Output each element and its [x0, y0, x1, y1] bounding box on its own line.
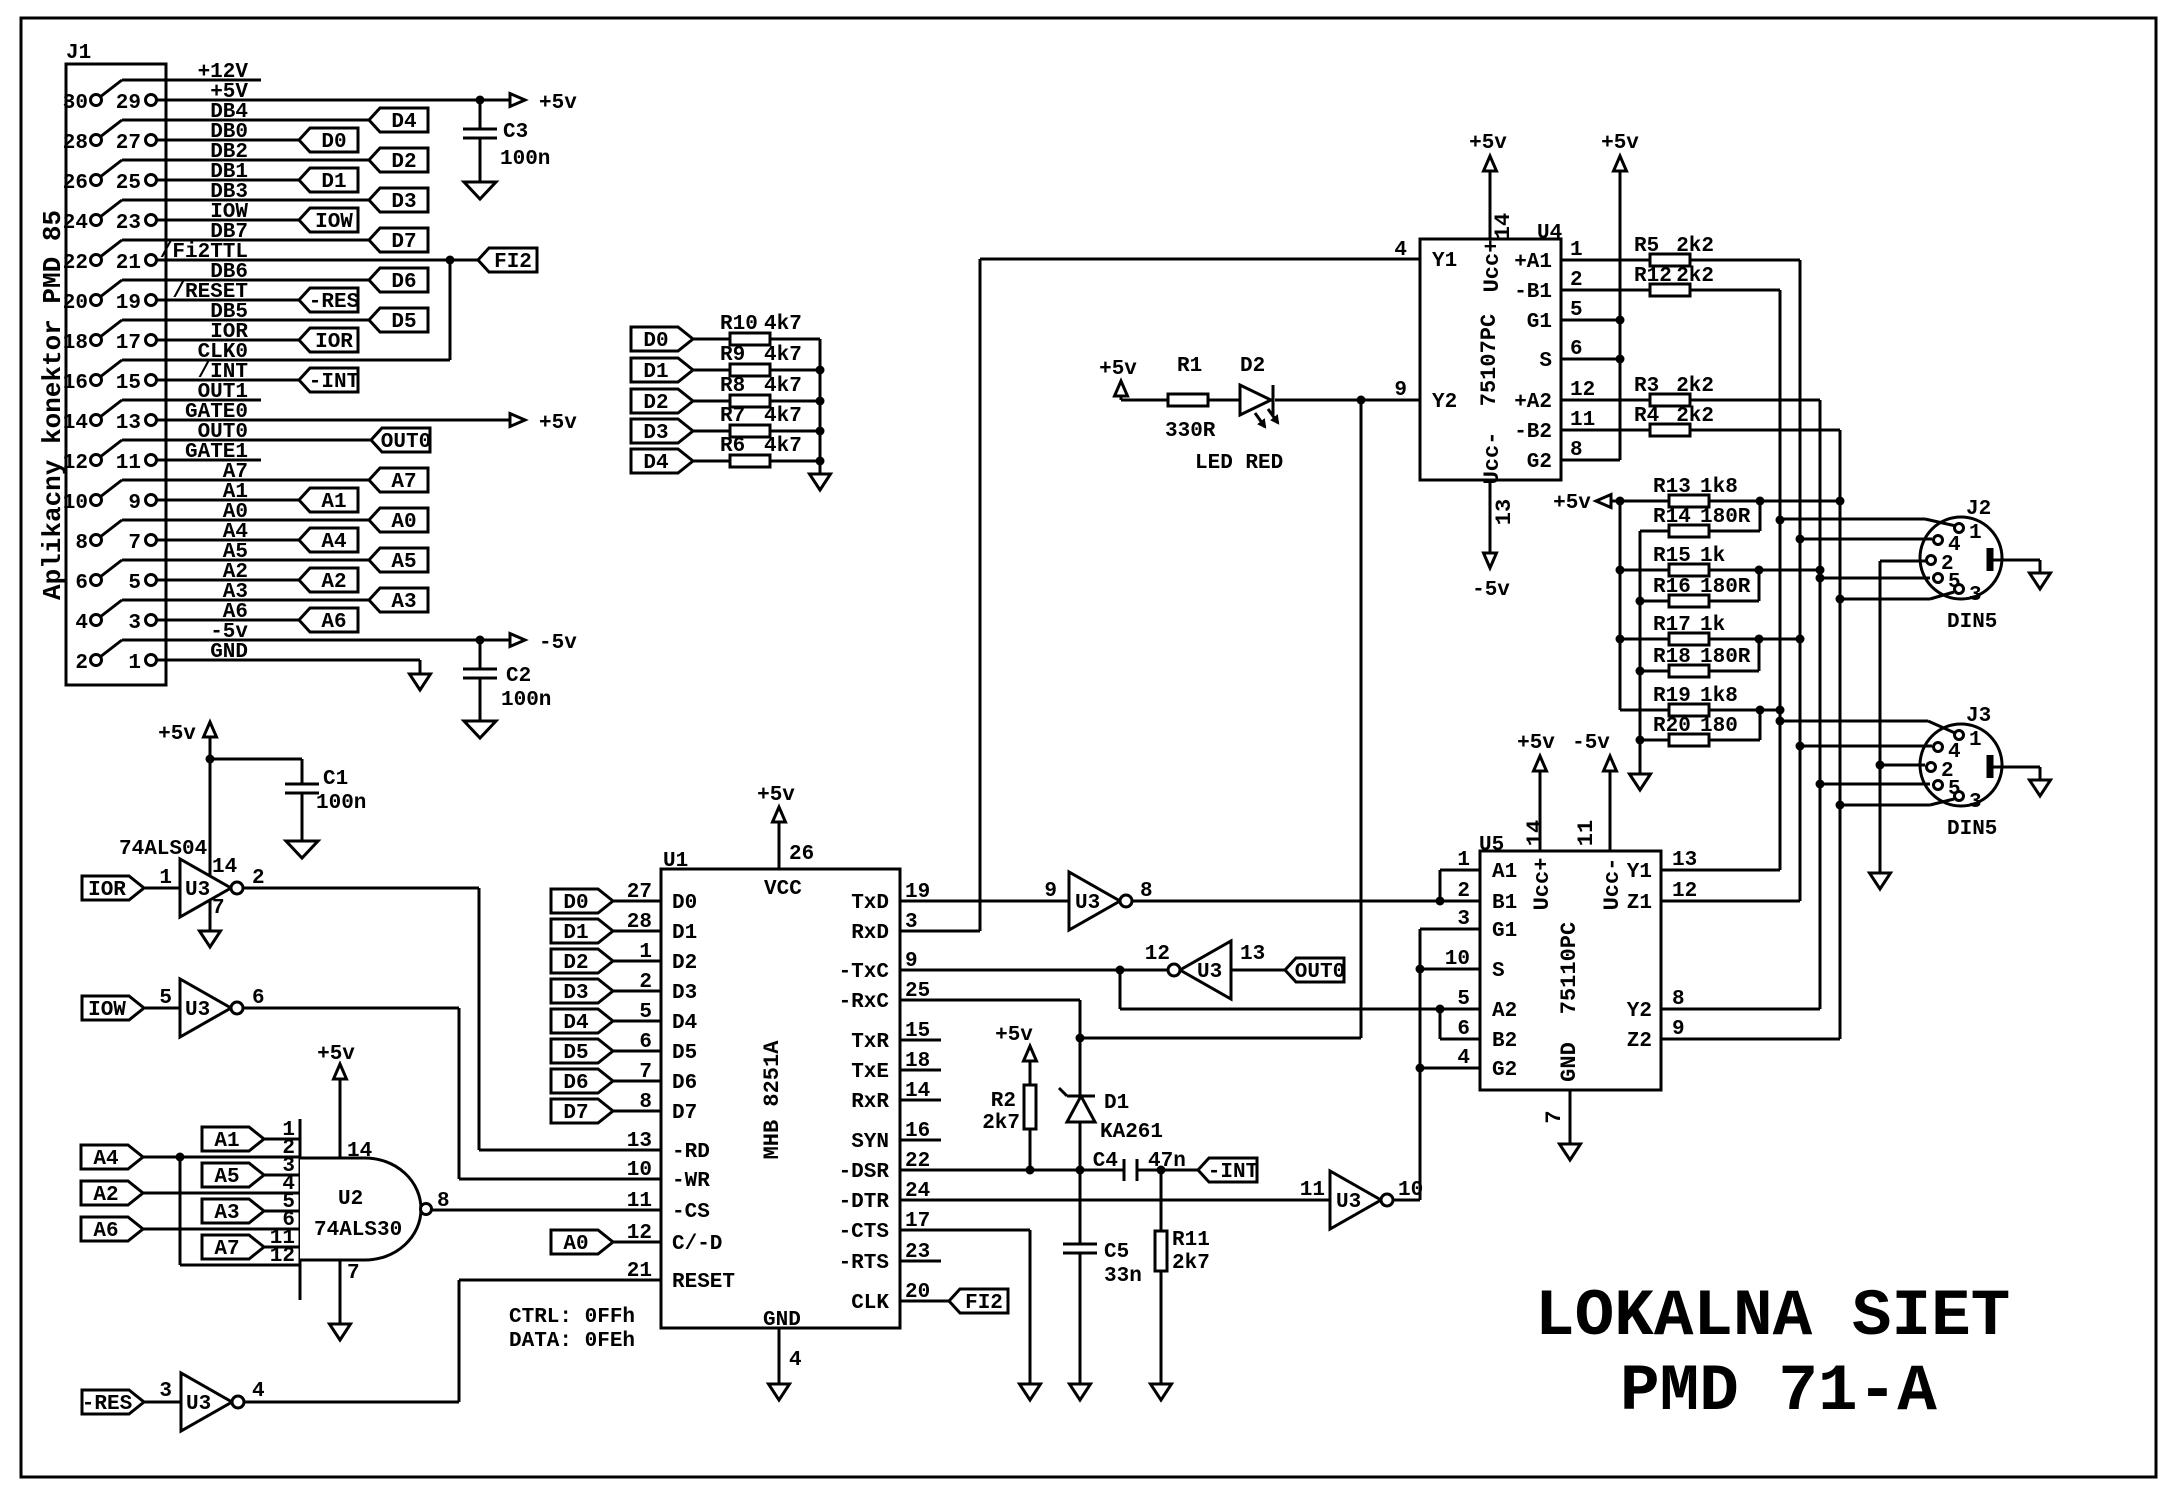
svg-text:-RES: -RES	[82, 1393, 132, 1416]
svg-text:R4: R4	[1634, 405, 1659, 428]
svg-text:U2: U2	[338, 1188, 363, 1211]
svg-text:180R: 180R	[1700, 646, 1751, 669]
svg-text:D6: D6	[672, 1072, 697, 1095]
svg-text:14: 14	[1523, 820, 1548, 846]
svg-text:R14: R14	[1653, 506, 1691, 529]
svg-text:-RTS: -RTS	[839, 1252, 889, 1275]
svg-text:A5: A5	[391, 551, 416, 574]
svg-text:5: 5	[159, 987, 172, 1010]
svg-text:D1: D1	[1104, 1092, 1129, 1115]
svg-text:OUT0: OUT0	[381, 431, 431, 454]
svg-text:D6: D6	[391, 271, 416, 294]
svg-text:R7: R7	[720, 405, 745, 428]
svg-text:D7: D7	[391, 231, 416, 254]
svg-text:D3: D3	[672, 982, 697, 1005]
svg-text:J2: J2	[1966, 498, 1991, 521]
svg-text:A0: A0	[563, 1233, 588, 1256]
svg-text:21: 21	[627, 1260, 652, 1283]
svg-text:-TxC: -TxC	[839, 961, 890, 984]
svg-text:J1: J1	[66, 42, 91, 65]
svg-text:GND: GND	[763, 1309, 801, 1332]
svg-text:D0: D0	[563, 892, 588, 915]
svg-text:1: 1	[1969, 522, 1982, 545]
svg-text:D2: D2	[391, 151, 416, 174]
svg-text:D5: D5	[391, 311, 416, 334]
svg-text:Y2: Y2	[1432, 391, 1457, 414]
svg-text:Ucc-: Ucc-	[1480, 432, 1505, 485]
svg-text:26: 26	[789, 843, 814, 866]
svg-text:12: 12	[63, 452, 88, 475]
svg-text:2k2: 2k2	[1676, 405, 1714, 428]
svg-text:Ucc-: Ucc-	[1600, 858, 1625, 911]
svg-text:A7: A7	[214, 1238, 239, 1261]
svg-text:27: 27	[116, 132, 141, 155]
svg-text:180: 180	[1700, 715, 1738, 738]
svg-text:5: 5	[1457, 988, 1470, 1011]
svg-text:4: 4	[252, 1380, 265, 1403]
svg-text:D6: D6	[563, 1072, 588, 1095]
svg-text:17: 17	[116, 332, 141, 355]
svg-text:RESET: RESET	[672, 1271, 735, 1294]
svg-text:180R: 180R	[1700, 506, 1751, 529]
svg-text:18: 18	[63, 332, 88, 355]
svg-text:2k7: 2k7	[982, 1112, 1020, 1135]
svg-text:-INT: -INT	[1208, 1161, 1258, 1184]
svg-text:DIN5: DIN5	[1947, 818, 1997, 841]
svg-text:U3: U3	[1197, 961, 1222, 984]
svg-text:14: 14	[347, 1140, 372, 1163]
svg-text:33n: 33n	[1104, 1265, 1142, 1288]
svg-text:R5: R5	[1634, 235, 1659, 258]
svg-text:D3: D3	[643, 422, 668, 445]
svg-text:74ALS04: 74ALS04	[119, 838, 207, 861]
svg-text:12: 12	[1145, 943, 1170, 966]
svg-text:1: 1	[159, 867, 172, 890]
svg-text:5: 5	[128, 572, 141, 595]
svg-text:Ucc+: Ucc+	[1480, 240, 1505, 293]
svg-text:A4: A4	[321, 531, 346, 554]
svg-text:15: 15	[116, 372, 141, 395]
svg-text:2k7: 2k7	[1172, 1252, 1210, 1275]
svg-text:4k7: 4k7	[764, 375, 802, 398]
svg-text:A3: A3	[214, 1202, 239, 1225]
svg-text:RxR: RxR	[851, 1091, 889, 1114]
svg-text:R15: R15	[1653, 545, 1691, 568]
svg-text:11: 11	[1300, 1179, 1325, 1202]
svg-text:A5: A5	[214, 1166, 239, 1189]
svg-text:8: 8	[75, 532, 88, 555]
svg-text:A6: A6	[321, 611, 346, 634]
svg-text:LED RED: LED RED	[1195, 452, 1283, 475]
svg-text:9: 9	[1044, 880, 1057, 903]
svg-text:-5v: -5v	[1472, 579, 1510, 602]
svg-text:A1: A1	[321, 491, 346, 514]
svg-text:G1: G1	[1492, 920, 1517, 943]
svg-text:2k2: 2k2	[1676, 265, 1714, 288]
svg-text:G1: G1	[1527, 311, 1552, 334]
svg-text:10: 10	[63, 492, 88, 515]
svg-text:100n: 100n	[316, 792, 366, 815]
svg-text:2: 2	[639, 971, 652, 994]
svg-text:U3: U3	[1075, 892, 1100, 915]
svg-text:IOW: IOW	[315, 211, 353, 234]
svg-text:D2: D2	[1240, 355, 1265, 378]
svg-text:B2: B2	[1492, 1030, 1517, 1053]
svg-text:22: 22	[63, 252, 88, 275]
svg-text:4k7: 4k7	[764, 405, 802, 428]
svg-text:R3: R3	[1634, 375, 1659, 398]
svg-text:9: 9	[1394, 379, 1407, 402]
svg-text:3: 3	[159, 1380, 172, 1403]
svg-text:A2: A2	[321, 571, 346, 594]
svg-text:TxD: TxD	[851, 892, 889, 915]
svg-text:R1: R1	[1177, 355, 1202, 378]
svg-text:A1: A1	[214, 1130, 239, 1153]
svg-text:1: 1	[128, 652, 141, 675]
svg-text:2k2: 2k2	[1676, 235, 1714, 258]
svg-text:+5v: +5v	[757, 784, 795, 807]
svg-text:A7: A7	[391, 471, 416, 494]
svg-text:S: S	[1492, 960, 1505, 983]
svg-text:G2: G2	[1527, 451, 1552, 474]
svg-text:C1: C1	[323, 768, 348, 791]
svg-text:27: 27	[627, 881, 652, 904]
svg-text:+5v: +5v	[995, 1024, 1033, 1047]
svg-text:D4: D4	[643, 452, 668, 475]
svg-text:D1: D1	[563, 922, 588, 945]
svg-text:13: 13	[1240, 943, 1265, 966]
svg-text:D1: D1	[643, 361, 668, 384]
svg-text:-RES: -RES	[309, 291, 359, 314]
svg-text:R18: R18	[1653, 646, 1691, 669]
svg-text:Z1: Z1	[1627, 892, 1652, 915]
svg-text:4: 4	[75, 612, 88, 635]
svg-text:+5v: +5v	[539, 92, 577, 115]
svg-text:-B2: -B2	[1514, 421, 1552, 444]
svg-text:D5: D5	[672, 1042, 697, 1065]
svg-text:7: 7	[128, 532, 141, 555]
svg-text:3: 3	[128, 612, 141, 635]
svg-text:LOKALNA SIET: LOKALNA SIET	[1535, 1279, 2010, 1354]
svg-text:14: 14	[212, 856, 237, 879]
svg-text:-INT: -INT	[309, 371, 359, 394]
svg-text:5: 5	[639, 1001, 652, 1024]
svg-text:28: 28	[627, 911, 652, 934]
svg-text:11: 11	[627, 1190, 652, 1213]
svg-text:IOW: IOW	[88, 999, 126, 1022]
svg-text:+5v: +5v	[1517, 732, 1555, 755]
svg-text:R19: R19	[1653, 685, 1691, 708]
svg-text:8: 8	[639, 1091, 652, 1114]
svg-text:-RD: -RD	[672, 1141, 710, 1164]
svg-text:4k7: 4k7	[764, 313, 802, 336]
svg-text:DATA: 0FEh: DATA: 0FEh	[509, 1330, 635, 1353]
svg-text:A2: A2	[93, 1184, 118, 1207]
svg-text:11: 11	[1574, 820, 1599, 846]
svg-text:75110PC: 75110PC	[1557, 922, 1582, 1014]
svg-text:D4: D4	[672, 1012, 697, 1035]
svg-text:6: 6	[75, 572, 88, 595]
svg-text:6: 6	[639, 1031, 652, 1054]
svg-text:-WR: -WR	[672, 1170, 710, 1193]
svg-text:C/-D: C/-D	[672, 1233, 722, 1256]
svg-text:TxE: TxE	[851, 1061, 889, 1084]
svg-text:16: 16	[63, 372, 88, 395]
svg-text:PMD 71-A: PMD 71-A	[1620, 1354, 1937, 1429]
svg-text:23: 23	[116, 212, 141, 235]
svg-text:1k: 1k	[1700, 614, 1725, 637]
svg-text:C4: C4	[1093, 1150, 1118, 1173]
svg-text:U4: U4	[1537, 222, 1562, 245]
svg-text:4k7: 4k7	[764, 344, 802, 367]
svg-text:R11: R11	[1172, 1229, 1210, 1252]
svg-text:D2: D2	[643, 392, 668, 415]
svg-text:180R: 180R	[1700, 576, 1751, 599]
svg-text:100n: 100n	[500, 148, 550, 171]
svg-text:R9: R9	[720, 344, 745, 367]
svg-text:100n: 100n	[501, 689, 551, 712]
svg-text:B1: B1	[1492, 892, 1517, 915]
svg-text:2k2: 2k2	[1676, 375, 1714, 398]
svg-text:2: 2	[1457, 880, 1470, 903]
svg-text:13: 13	[1492, 499, 1517, 525]
svg-text:3: 3	[1969, 584, 1982, 607]
svg-text:GND: GND	[1557, 1042, 1582, 1082]
svg-text:1k: 1k	[1700, 545, 1725, 568]
svg-text:-5v: -5v	[539, 632, 577, 655]
svg-text:D7: D7	[563, 1102, 588, 1125]
svg-text:R16: R16	[1653, 576, 1691, 599]
svg-text:D3: D3	[391, 191, 416, 214]
svg-text:CTRL: 0FFh: CTRL: 0FFh	[509, 1306, 635, 1329]
svg-text:-DTR: -DTR	[839, 1191, 890, 1214]
svg-text:4k7: 4k7	[764, 435, 802, 458]
svg-text:330R: 330R	[1165, 420, 1216, 443]
svg-text:D2: D2	[672, 952, 697, 975]
svg-text:+5v: +5v	[1469, 132, 1507, 155]
svg-text:R10: R10	[720, 313, 758, 336]
svg-text:MHB 8251A: MHB 8251A	[760, 1040, 785, 1160]
svg-text:1: 1	[639, 941, 652, 964]
svg-text:+5v: +5v	[1601, 132, 1639, 155]
svg-text:OUT0: OUT0	[1295, 961, 1345, 984]
svg-text:-CS: -CS	[672, 1201, 710, 1224]
svg-text:47n: 47n	[1148, 1150, 1186, 1173]
svg-text:SYN: SYN	[851, 1131, 889, 1154]
svg-text:74ALS30: 74ALS30	[314, 1219, 402, 1242]
svg-text:C5: C5	[1104, 1241, 1129, 1264]
svg-text:26: 26	[63, 172, 88, 195]
svg-text:R8: R8	[720, 375, 745, 398]
svg-text:D4: D4	[563, 1012, 588, 1035]
svg-text:Y1: Y1	[1627, 861, 1652, 884]
svg-text:D5: D5	[563, 1042, 588, 1065]
svg-text:DIN5: DIN5	[1947, 611, 1997, 634]
svg-text:R12: R12	[1634, 265, 1672, 288]
svg-text:24: 24	[63, 212, 88, 235]
svg-text:11: 11	[116, 452, 141, 475]
svg-text:7: 7	[212, 897, 225, 920]
svg-text:1k8: 1k8	[1700, 685, 1738, 708]
svg-text:D0: D0	[643, 330, 668, 353]
svg-text:J3: J3	[1966, 705, 1991, 728]
svg-text:D3: D3	[563, 982, 588, 1005]
svg-text:Z2: Z2	[1627, 1030, 1652, 1053]
svg-text:FI2: FI2	[494, 251, 532, 274]
svg-text:G2: G2	[1492, 1059, 1517, 1082]
svg-text:U1: U1	[663, 850, 688, 873]
svg-text:21: 21	[116, 252, 141, 275]
svg-text:D0: D0	[672, 892, 697, 915]
svg-text:+5v: +5v	[539, 412, 577, 435]
svg-text:10: 10	[627, 1159, 652, 1182]
svg-text:A2: A2	[1492, 1000, 1517, 1023]
svg-text:1: 1	[1969, 729, 1982, 752]
svg-text:A6: A6	[93, 1220, 118, 1243]
svg-text:IOR: IOR	[88, 879, 126, 902]
svg-text:13: 13	[116, 412, 141, 435]
svg-text:+A2: +A2	[1514, 391, 1552, 414]
svg-text:75107PC: 75107PC	[1477, 314, 1502, 406]
svg-text:U3: U3	[1336, 1191, 1361, 1214]
svg-text:D1: D1	[672, 922, 697, 945]
svg-text:3: 3	[1969, 791, 1982, 814]
svg-text:U5: U5	[1479, 834, 1504, 857]
svg-text:14: 14	[63, 412, 88, 435]
svg-text:U3: U3	[185, 879, 210, 902]
svg-text:A1: A1	[1492, 861, 1517, 884]
svg-text:8: 8	[437, 1190, 450, 1213]
svg-text:-CTS: -CTS	[839, 1221, 889, 1244]
svg-text:4: 4	[1394, 239, 1407, 262]
svg-text:2: 2	[75, 652, 88, 675]
svg-text:IOR: IOR	[315, 331, 353, 354]
svg-text:R2: R2	[991, 1090, 1016, 1113]
svg-text:D0: D0	[321, 131, 346, 154]
svg-text:KA261: KA261	[1100, 1121, 1163, 1144]
svg-text:30: 30	[63, 92, 88, 115]
svg-text:D7: D7	[672, 1102, 697, 1125]
svg-text:25: 25	[116, 172, 141, 195]
svg-text:-RxC: -RxC	[839, 991, 890, 1014]
svg-text:7: 7	[347, 1262, 360, 1285]
svg-text:R6: R6	[720, 435, 745, 458]
svg-text:13: 13	[627, 1130, 652, 1153]
svg-text:D4: D4	[391, 111, 416, 134]
svg-text:7: 7	[639, 1061, 652, 1084]
svg-text:4: 4	[789, 1349, 802, 1372]
svg-text:+5v: +5v	[1099, 358, 1137, 381]
svg-text:D2: D2	[563, 952, 588, 975]
svg-text:R13: R13	[1653, 476, 1691, 499]
svg-text:20: 20	[63, 292, 88, 315]
svg-text:-B1: -B1	[1514, 281, 1552, 304]
svg-text:RxD: RxD	[851, 922, 889, 945]
svg-text:1k8: 1k8	[1700, 476, 1738, 499]
svg-text:U3: U3	[185, 999, 210, 1022]
svg-text:+A1: +A1	[1514, 251, 1552, 274]
svg-text:A3: A3	[391, 591, 416, 614]
svg-text:+5v: +5v	[317, 1043, 355, 1066]
svg-text:A4: A4	[93, 1148, 118, 1171]
svg-text:14: 14	[1491, 213, 1516, 239]
svg-text:U3: U3	[186, 1393, 211, 1416]
svg-text:A0: A0	[391, 511, 416, 534]
svg-text:R17: R17	[1653, 614, 1691, 637]
svg-text:FI2: FI2	[965, 1292, 1003, 1315]
svg-text:CLK: CLK	[851, 1292, 889, 1315]
svg-text:Ucc+: Ucc+	[1530, 858, 1555, 911]
svg-text:19: 19	[116, 292, 141, 315]
svg-text:S: S	[1539, 350, 1552, 373]
svg-text:C3: C3	[503, 121, 528, 144]
svg-text:Y1: Y1	[1432, 250, 1457, 273]
svg-text:+5v: +5v	[158, 723, 196, 746]
svg-text:+5v: +5v	[1553, 492, 1591, 515]
svg-text:-DSR: -DSR	[839, 1161, 890, 1184]
svg-text:29: 29	[116, 92, 141, 115]
svg-text:R20: R20	[1653, 715, 1691, 738]
svg-text:-5v: -5v	[1572, 732, 1610, 755]
svg-text:7: 7	[1542, 1110, 1567, 1123]
svg-text:D1: D1	[321, 171, 346, 194]
svg-text:28: 28	[63, 132, 88, 155]
svg-text:VCC: VCC	[764, 878, 802, 901]
svg-text:Y2: Y2	[1627, 1000, 1652, 1023]
svg-text:TxR: TxR	[851, 1031, 889, 1054]
svg-text:9: 9	[128, 492, 141, 515]
svg-text:C2: C2	[506, 665, 531, 688]
